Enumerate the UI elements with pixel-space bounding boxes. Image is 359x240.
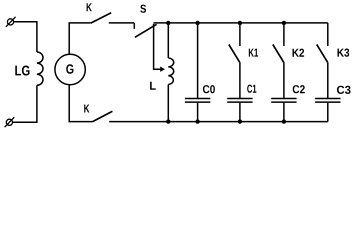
node: L branch bottom junction <box>166 119 170 123</box>
wire top rail to C0 <box>197 23 199 98</box>
switch K (bottom) blade <box>92 111 112 122</box>
wire L to bottom rail <box>167 85 169 122</box>
label G <box>66 64 73 73</box>
switch K (top) blade <box>91 13 112 23</box>
label C0 <box>203 85 215 93</box>
wire L tap (from S pivot down to arrow) <box>154 24 161 69</box>
wire K3 to C3 <box>327 62 329 98</box>
switch S blade <box>135 24 157 37</box>
terminal X1 (top input) <box>6 17 16 27</box>
label C3 <box>337 86 351 94</box>
inductor LG <box>37 52 43 85</box>
node: C0 top junction <box>195 21 199 25</box>
label LG <box>15 65 29 75</box>
arrowhead of L tap <box>160 67 165 72</box>
switch S left contact tick <box>133 23 135 29</box>
switch K1 blade <box>229 44 240 62</box>
label K (top) <box>87 3 92 11</box>
capacitor C1 <box>227 99 252 103</box>
label K3 <box>338 49 350 57</box>
terminal X2 (bottom input) <box>5 117 15 127</box>
capacitor C2 <box>271 99 296 103</box>
bottom rail (K to C3 corner) <box>109 121 328 123</box>
wire K1 to C1 <box>239 62 241 98</box>
wire C3 to bottom rail corner <box>327 103 329 122</box>
label C2 <box>293 85 305 93</box>
wire C2 to bottom rail <box>283 103 285 122</box>
node: L branch top junction <box>166 21 170 25</box>
capacitor C0 <box>185 99 210 103</box>
wire top rail to switch K2 <box>283 23 285 46</box>
switch K3 blade <box>317 44 328 62</box>
wire C0 to bottom rail <box>197 103 199 122</box>
wire top-left terminal to LG <box>14 22 37 52</box>
generator G <box>55 54 85 84</box>
label K (bottom) <box>84 105 89 113</box>
wire C1 to bottom rail <box>239 103 241 122</box>
wire G top to switch K <box>69 23 91 55</box>
wire top rail corner down to switch K3 <box>327 23 329 46</box>
wire K to S (top rail left) <box>109 22 135 24</box>
label K1 <box>249 49 258 57</box>
capacitor C3 <box>315 99 340 103</box>
wire G bottom to switch K (bottom) <box>69 85 92 122</box>
label S <box>140 5 146 13</box>
node: C1 top junction <box>238 21 242 25</box>
node: C2 bottom junction <box>282 119 286 123</box>
wire LG to bottom-left terminal <box>13 85 37 122</box>
node: C1 bottom junction <box>238 119 242 123</box>
wire top rail to switch K1 <box>239 23 241 46</box>
inductor L <box>168 58 173 85</box>
node: C2 top junction <box>282 21 286 25</box>
node: C0 bottom junction <box>195 119 199 123</box>
label L <box>150 82 156 90</box>
label C1 <box>247 85 256 93</box>
top rail (S to C3 corner) <box>154 22 328 24</box>
switch K2 blade <box>273 44 284 62</box>
wire K2 to C2 <box>283 62 285 98</box>
wire top rail to L <box>167 23 169 58</box>
label K2 <box>293 49 305 57</box>
